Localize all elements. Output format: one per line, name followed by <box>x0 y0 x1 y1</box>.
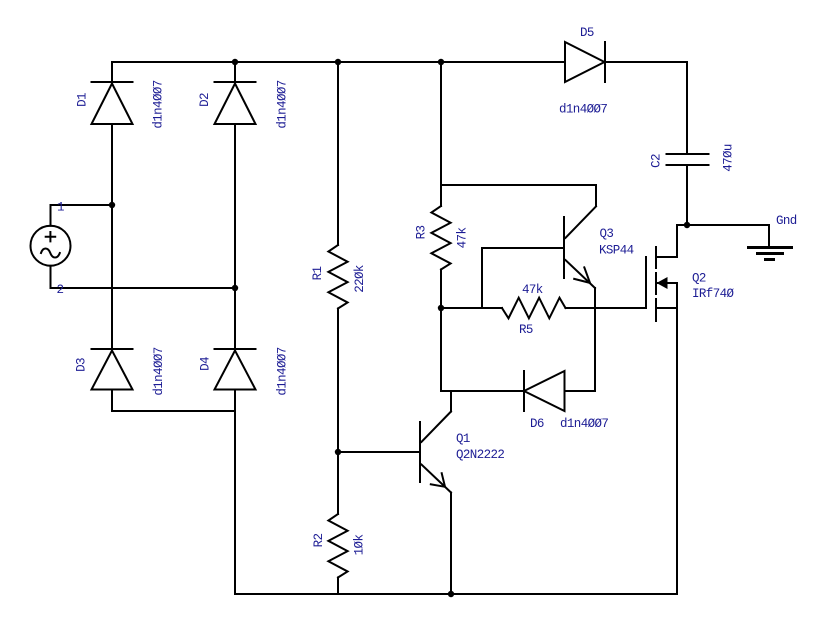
svg-text:D1: D1 <box>75 93 89 107</box>
svg-text:Q2: Q2 <box>692 272 706 286</box>
svg-text:d1n4ØØ7: d1n4ØØ7 <box>152 347 166 395</box>
svg-text:R2: R2 <box>312 534 326 548</box>
svg-text:Q3: Q3 <box>600 227 614 241</box>
svg-text:d1n4ØØ7: d1n4ØØ7 <box>276 347 290 395</box>
svg-text:R3: R3 <box>414 226 428 240</box>
svg-text:R1: R1 <box>311 267 325 281</box>
svg-text:D6: D6 <box>530 417 544 431</box>
svg-text:47k: 47k <box>522 283 543 297</box>
svg-text:1: 1 <box>57 201 64 215</box>
svg-text:47Øu: 47Øu <box>721 144 735 172</box>
svg-text:2: 2 <box>57 283 64 297</box>
svg-text:Gnd: Gnd <box>776 214 797 228</box>
svg-text:D4: D4 <box>199 357 213 371</box>
svg-text:Q1: Q1 <box>456 432 470 446</box>
svg-text:d1n4ØØ7: d1n4ØØ7 <box>152 80 166 128</box>
svg-text:KSP44: KSP44 <box>599 244 634 258</box>
svg-text:d1n4ØØ7: d1n4ØØ7 <box>560 417 608 431</box>
svg-text:d1n4ØØ7: d1n4ØØ7 <box>559 103 607 117</box>
svg-text:22Øk: 22Øk <box>353 265 367 293</box>
svg-text:D5: D5 <box>580 26 594 40</box>
svg-text:D3: D3 <box>74 358 88 372</box>
svg-text:R5: R5 <box>519 323 533 337</box>
svg-text:47k: 47k <box>455 228 469 249</box>
svg-text:d1n4ØØ7: d1n4ØØ7 <box>275 80 289 128</box>
svg-text:IRf74Ø: IRf74Ø <box>692 287 735 301</box>
svg-text:Q2N2222: Q2N2222 <box>456 448 504 462</box>
svg-text:1Øk: 1Øk <box>352 535 366 556</box>
svg-text:D2: D2 <box>198 93 212 107</box>
svg-text:C2: C2 <box>650 154 664 168</box>
